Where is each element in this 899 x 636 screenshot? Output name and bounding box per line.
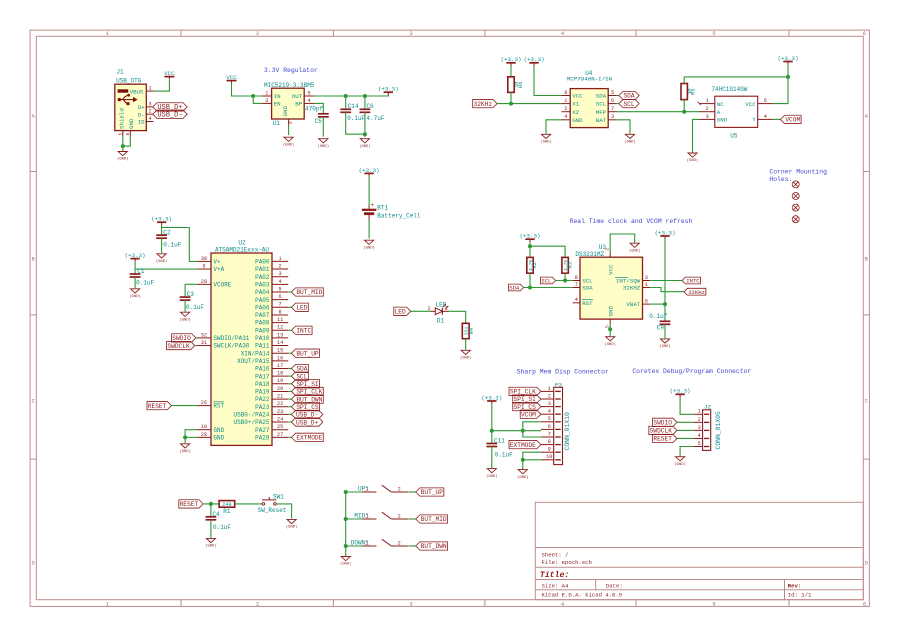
svg-text:7: 7	[575, 282, 578, 288]
svg-text:SDA: SDA	[596, 93, 607, 100]
svg-text:1: 1	[564, 98, 567, 104]
svg-text:R1: R1	[223, 508, 231, 515]
svg-text:PA17: PA17	[255, 373, 270, 380]
svg-text:32KHz: 32KHz	[688, 289, 705, 296]
svg-text:J1: J1	[116, 69, 124, 76]
svg-text:(GND): (GND)	[687, 158, 698, 163]
svg-text:VCORE: VCORE	[213, 281, 231, 288]
svg-text:2: 2	[288, 121, 294, 124]
svg-text:0.1uF: 0.1uF	[213, 524, 231, 531]
svg-text:BP: BP	[295, 101, 302, 108]
svg-text:7: 7	[279, 302, 282, 308]
svg-text:VCOM: VCOM	[785, 117, 800, 124]
svg-text:1: 1	[645, 282, 648, 288]
svg-text:12: 12	[277, 325, 283, 331]
svg-text:VCC: VCC	[607, 264, 614, 275]
svg-text:0.1uF: 0.1uF	[136, 280, 154, 287]
svg-text:0.1uF: 0.1uF	[186, 304, 204, 311]
svg-text:C11: C11	[494, 438, 505, 445]
svg-text:5: 5	[764, 98, 767, 104]
svg-text:11: 11	[277, 317, 283, 323]
svg-text:U1: U1	[273, 120, 281, 127]
svg-text:5: 5	[712, 600, 715, 607]
svg-text:10: 10	[546, 454, 552, 460]
svg-text:NC: NC	[717, 101, 724, 108]
svg-text:1: 1	[365, 514, 368, 520]
svg-text:XOUT/PA15: XOUT/PA15	[237, 358, 270, 365]
svg-text:27: 27	[277, 432, 283, 438]
svg-text:GND: GND	[282, 106, 289, 117]
svg-text:8: 8	[575, 275, 578, 281]
svg-text:RESET: RESET	[148, 403, 167, 410]
svg-text:10: 10	[201, 424, 207, 430]
svg-text:D-: D-	[138, 111, 145, 118]
svg-text:(GND): (GND)	[659, 344, 670, 349]
svg-text:1: 1	[444, 306, 447, 312]
svg-text:R2: R2	[532, 262, 538, 268]
svg-text:SWDCLK: SWDCLK	[167, 343, 190, 350]
svg-text:EN: EN	[274, 101, 281, 108]
svg-text:1: 1	[365, 487, 368, 493]
svg-text:GND: GND	[213, 434, 224, 441]
svg-text:PA02: PA02	[255, 274, 270, 281]
svg-text:21: 21	[277, 394, 283, 400]
svg-text:7: 7	[611, 106, 614, 112]
svg-text:C1: C1	[137, 268, 145, 275]
svg-text:4: 4	[307, 98, 310, 104]
svg-text:GND: GND	[572, 117, 583, 124]
svg-text:1: 1	[279, 256, 282, 262]
svg-text:2: 2	[427, 306, 430, 312]
svg-text:V+A: V+A	[213, 266, 224, 273]
svg-text:28: 28	[201, 432, 207, 438]
svg-text:7: 7	[548, 431, 551, 437]
svg-text:8: 8	[564, 90, 567, 96]
svg-text:6: 6	[645, 299, 648, 305]
svg-text:2: 2	[398, 540, 401, 546]
svg-text:PA19: PA19	[255, 389, 270, 396]
svg-text:C14: C14	[348, 103, 359, 110]
svg-text:5: 5	[279, 286, 282, 292]
svg-text:BUT_UP: BUT_UP	[421, 489, 444, 496]
svg-text:C4: C4	[213, 511, 221, 518]
svg-text:4: 4	[575, 297, 578, 303]
svg-text:BUT_UP: BUT_UP	[296, 350, 319, 357]
svg-text:USB0-/PA24: USB0-/PA24	[233, 412, 269, 419]
svg-text:RST: RST	[582, 300, 593, 307]
svg-text:2: 2	[148, 109, 151, 115]
svg-text:Holes.: Holes.	[769, 176, 792, 183]
svg-text:VCC: VCC	[572, 93, 583, 100]
svg-text:(GND): (GND)	[363, 245, 374, 250]
svg-text:(GND): (GND)	[283, 142, 294, 147]
svg-text:5: 5	[307, 90, 310, 96]
svg-text:1: 1	[148, 86, 151, 92]
svg-text:0.1uf: 0.1uf	[649, 313, 667, 320]
svg-text:(GND): (GND)	[486, 474, 497, 479]
svg-text:PA10: PA10	[255, 335, 270, 342]
svg-text:PA00: PA00	[255, 259, 270, 266]
svg-text:GND: GND	[717, 117, 728, 124]
svg-text:USB_OTG: USB_OTG	[116, 77, 142, 84]
svg-text:4: 4	[698, 433, 701, 439]
svg-text:1: 1	[548, 386, 551, 392]
svg-text:D1: D1	[437, 317, 445, 324]
svg-text:OUT: OUT	[292, 93, 303, 100]
svg-text:CONN_01X10: CONN_01X10	[564, 412, 571, 451]
svg-text:26: 26	[201, 400, 207, 406]
svg-text:19: 19	[277, 378, 283, 384]
svg-text:PA28: PA28	[255, 434, 270, 441]
svg-text:0.1uF: 0.1uF	[347, 115, 365, 122]
svg-text:(GND): (GND)	[624, 140, 635, 145]
svg-text:Title:: Title:	[540, 570, 569, 580]
svg-text:3: 3	[698, 425, 701, 431]
svg-text:PA04: PA04	[255, 289, 270, 296]
svg-text:EXTMODE: EXTMODE	[296, 435, 322, 442]
svg-text:15: 15	[277, 348, 283, 354]
svg-text:6: 6	[863, 600, 866, 607]
svg-text:RESET: RESET	[180, 501, 199, 508]
svg-text:(GND): (GND)	[540, 140, 551, 145]
svg-text:Sharp Mem Disp Connector: Sharp Mem Disp Connector	[517, 368, 609, 375]
svg-text:PA09: PA09	[255, 327, 270, 334]
svg-text:SWDIO/PA31: SWDIO/PA31	[213, 335, 249, 342]
svg-text:(GND): (GND)	[205, 544, 216, 549]
svg-text:C9: C9	[657, 324, 665, 331]
svg-text:4: 4	[148, 116, 151, 122]
svg-text:C5: C5	[315, 118, 323, 125]
svg-text:CONN_01X05: CONN_01X05	[715, 411, 722, 450]
svg-text:25: 25	[277, 424, 283, 430]
svg-text:MCP7940N-I/SN: MCP7940N-I/SN	[567, 76, 613, 83]
svg-text:PA18: PA18	[255, 381, 270, 388]
svg-text:SCL: SCL	[596, 101, 607, 108]
svg-text:5: 5	[548, 416, 551, 422]
svg-text:RST: RST	[213, 403, 224, 410]
svg-text:R6: R6	[518, 82, 524, 88]
svg-text:PA01: PA01	[255, 266, 270, 273]
svg-text:16: 16	[277, 355, 283, 361]
svg-text:6: 6	[125, 133, 131, 136]
svg-text:32KHz: 32KHz	[474, 101, 493, 108]
svg-text:SCL: SCL	[623, 101, 634, 108]
svg-text:C2: C2	[163, 229, 171, 236]
svg-text:(GND): (GND)	[460, 356, 471, 361]
svg-text:(GND): (GND)	[604, 342, 615, 347]
svg-text:SDA: SDA	[623, 93, 634, 100]
svg-text:(GND): (GND)	[286, 525, 297, 530]
svg-text:(GND): (GND)	[674, 462, 685, 467]
svg-text:BAT: BAT	[596, 117, 607, 124]
svg-text:6: 6	[611, 98, 614, 104]
svg-text:24: 24	[277, 416, 283, 422]
svg-text:Corner Mounting: Corner Mounting	[769, 168, 827, 175]
svg-text:(GND): (GND)	[179, 317, 190, 322]
svg-text:5: 5	[117, 133, 123, 136]
svg-text:SCL: SCL	[582, 278, 593, 285]
svg-text:3: 3	[409, 30, 412, 37]
svg-text:+: +	[370, 202, 374, 209]
svg-text:(GND): (GND)	[359, 144, 370, 149]
svg-text:INT/SQW: INT/SQW	[616, 278, 641, 285]
svg-text:D+: D+	[138, 104, 145, 111]
svg-text:6: 6	[548, 424, 551, 430]
svg-text:MFP: MFP	[596, 109, 607, 116]
svg-text:VCOM: VCOM	[521, 411, 536, 418]
svg-text:5: 5	[611, 90, 614, 96]
svg-text:Size: A4: Size: A4	[542, 583, 569, 590]
svg-text:2: 2	[698, 417, 701, 423]
svg-text:3: 3	[265, 98, 268, 104]
svg-text:20: 20	[277, 386, 283, 392]
svg-text:SWDCLK: SWDCLK	[650, 428, 673, 435]
svg-text:30: 30	[201, 256, 207, 262]
svg-text:A: A	[717, 109, 721, 116]
svg-text:31: 31	[201, 340, 207, 346]
svg-text:SCL: SCL	[541, 278, 551, 285]
svg-text:SDA: SDA	[509, 285, 520, 292]
svg-text:PA08: PA08	[255, 320, 270, 327]
svg-text:PA05: PA05	[255, 297, 270, 304]
svg-text:RESET: RESET	[653, 436, 672, 443]
svg-text:14: 14	[277, 340, 283, 346]
svg-text:USB0+/PA25: USB0+/PA25	[233, 419, 269, 426]
svg-text:3: 3	[645, 275, 648, 281]
svg-text:SWDIO: SWDIO	[653, 420, 672, 427]
svg-text:32: 32	[201, 332, 207, 338]
svg-text:8: 8	[279, 309, 282, 315]
svg-text:2: 2	[548, 393, 551, 399]
svg-text:17: 17	[277, 363, 283, 369]
svg-text:(GND): (GND)	[117, 157, 128, 162]
svg-text:3: 3	[611, 114, 614, 120]
svg-text:Id: 1/1: Id: 1/1	[788, 592, 812, 599]
svg-text:0.1uF: 0.1uF	[163, 242, 181, 249]
svg-text:VBUS: VBUS	[130, 88, 144, 95]
svg-text:LED: LED	[296, 305, 307, 312]
svg-text:PA03: PA03	[255, 281, 270, 288]
svg-text:3.3V Regulator: 3.3V Regulator	[264, 67, 318, 74]
svg-text:ID: ID	[138, 119, 145, 126]
svg-text:Sheet: /: Sheet: /	[542, 552, 569, 559]
svg-text:USB_D-: USB_D-	[157, 111, 182, 119]
svg-text:2: 2	[564, 106, 567, 112]
svg-text:3: 3	[548, 401, 551, 407]
svg-text:(GND): (GND)	[629, 248, 640, 253]
svg-text:LED: LED	[395, 309, 406, 316]
svg-text:3: 3	[706, 114, 709, 120]
svg-text:1: 1	[265, 90, 268, 96]
svg-text:0.1uF: 0.1uF	[495, 452, 513, 459]
svg-text:74HC1G14GW: 74HC1G14GW	[711, 86, 747, 93]
svg-text:9: 9	[548, 447, 551, 453]
svg-text:4: 4	[564, 114, 567, 120]
svg-text:5: 5	[698, 441, 701, 447]
svg-text:3: 3	[279, 271, 282, 277]
svg-text:USB_D+: USB_D+	[296, 419, 319, 426]
svg-text:IN: IN	[274, 93, 281, 100]
svg-text:VBAT: VBAT	[626, 301, 640, 308]
svg-text:(GND): (GND)	[129, 294, 140, 299]
svg-text:U2: U2	[238, 239, 246, 246]
svg-text:1: 1	[698, 409, 701, 415]
svg-text:(GND): (GND)	[179, 449, 190, 454]
svg-text:29: 29	[201, 279, 207, 285]
svg-text:INTC: INTC	[686, 278, 700, 285]
svg-text:PA16: PA16	[255, 366, 270, 373]
svg-text:22: 22	[277, 401, 283, 407]
svg-text:R4: R4	[469, 328, 475, 334]
svg-text:3: 3	[409, 600, 412, 607]
svg-text:6: 6	[863, 30, 866, 37]
svg-text:Real Time clock and VCOM refre: Real Time clock and VCOM refresh	[570, 218, 693, 225]
svg-text:GND: GND	[607, 306, 614, 317]
svg-text:32KHZ: 32KHZ	[623, 285, 641, 292]
svg-text:8: 8	[548, 439, 551, 445]
svg-text:PA07: PA07	[255, 312, 270, 319]
svg-text:2: 2	[256, 600, 259, 607]
svg-text:BT1: BT1	[377, 205, 388, 212]
svg-text:EXTMODE: EXTMODE	[510, 442, 536, 449]
svg-text:BUT_DWN: BUT_DWN	[421, 543, 447, 550]
svg-text:(GND): (GND)	[517, 475, 528, 480]
svg-text:GND: GND	[128, 118, 135, 129]
svg-text:U5: U5	[730, 132, 738, 139]
svg-text:4: 4	[279, 279, 282, 285]
svg-text:2: 2	[398, 486, 401, 492]
svg-text:Battery_Cell: Battery_Cell	[377, 212, 421, 219]
svg-text:Date:: Date:	[606, 583, 623, 590]
svg-text:SW1: SW1	[273, 493, 284, 500]
svg-text:XIN/PA14: XIN/PA14	[241, 350, 270, 357]
svg-text:3: 3	[148, 101, 151, 107]
svg-text:R5: R5	[691, 89, 697, 95]
svg-text:SWCLK/PA30: SWCLK/PA30	[213, 343, 249, 350]
svg-text:GND: GND	[213, 427, 224, 434]
svg-text:BUT_MID: BUT_MID	[421, 516, 447, 523]
svg-text:PA06: PA06	[255, 304, 270, 311]
svg-text:VCC: VCC	[745, 101, 756, 108]
svg-text:2: 2	[256, 30, 259, 37]
svg-text:4.7uF: 4.7uF	[366, 115, 384, 122]
svg-text:INTC: INTC	[296, 327, 311, 334]
svg-text:(GND): (GND)	[340, 562, 351, 567]
svg-text:23: 23	[277, 409, 283, 415]
svg-text:4: 4	[548, 409, 551, 415]
svg-text:6: 6	[279, 294, 282, 300]
svg-text:Shield: Shield	[119, 108, 126, 129]
svg-text:Rev:: Rev:	[788, 583, 801, 590]
svg-text:BUT_MID: BUT_MID	[296, 289, 322, 296]
svg-text:PA27: PA27	[255, 427, 270, 434]
svg-text:R3: R3	[567, 262, 573, 268]
svg-text:(GND): (GND)	[318, 144, 329, 149]
svg-text:KiCad E.D.A. kicad 4.0.5: KiCad E.D.A. kicad 4.0.5	[542, 592, 623, 599]
svg-text:Y: Y	[752, 116, 756, 123]
svg-text:2: 2	[398, 513, 401, 519]
svg-text:Coretex Debug/Program Connecto: Coretex Debug/Program Connector	[632, 368, 751, 375]
svg-text:C6: C6	[366, 103, 374, 110]
svg-text:13: 13	[277, 332, 283, 338]
svg-text:X2: X2	[572, 109, 579, 116]
svg-text:4: 4	[764, 114, 767, 120]
svg-text:File: epoch.sch: File: epoch.sch	[542, 559, 592, 566]
svg-text:470pf: 470pf	[305, 106, 323, 113]
svg-text:1: 1	[706, 98, 709, 104]
svg-text:PA22: PA22	[255, 396, 270, 403]
svg-text:PA23: PA23	[255, 404, 270, 411]
svg-text:SW_Reset: SW_Reset	[258, 507, 287, 514]
svg-text:5: 5	[712, 30, 715, 37]
svg-text:X1: X1	[572, 101, 579, 108]
svg-text:18: 18	[277, 371, 283, 377]
svg-text:PA11: PA11	[255, 343, 270, 350]
svg-text:V+: V+	[213, 259, 221, 266]
svg-text:SDA: SDA	[582, 285, 593, 292]
svg-text:2: 2	[706, 106, 709, 112]
svg-text:1: 1	[365, 541, 368, 547]
svg-text:9: 9	[202, 263, 205, 269]
svg-text:(GND): (GND)	[156, 259, 167, 264]
svg-text:C3: C3	[187, 291, 195, 298]
svg-text:2: 2	[279, 263, 282, 269]
